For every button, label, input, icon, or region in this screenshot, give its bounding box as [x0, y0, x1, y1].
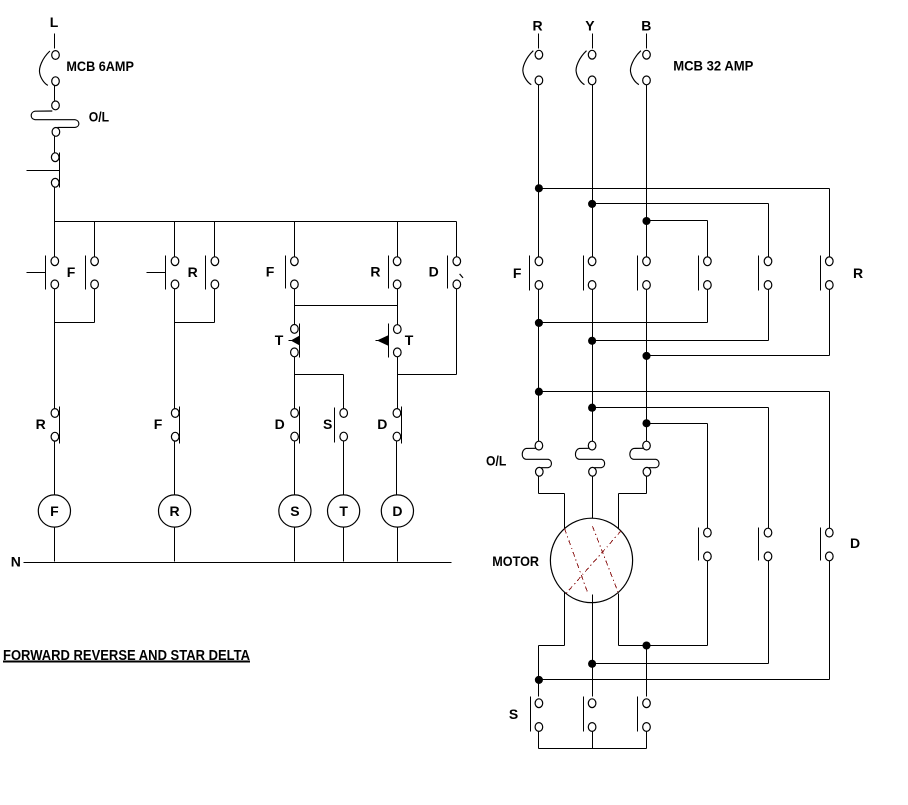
svg-text:T: T — [405, 332, 414, 348]
junction V2 / delta contact 2 link — [588, 660, 596, 668]
svg-text:L: L — [50, 14, 59, 30]
auxiliary contact F (NO) — [286, 256, 299, 289]
wire star contact 1 to star point — [538, 732, 540, 749]
wire down to contact 5 — [768, 204, 770, 258]
wire from O/L heater to O/L trip contact — [54, 137, 56, 153]
phase R wire contactor F to O/L — [538, 290, 540, 442]
neutral bus N — [24, 562, 452, 564]
wire bus to F pushbutton — [54, 222, 56, 258]
wire from F aux contact down — [294, 289, 296, 306]
wire O/L phase Y into motor terminal V — [592, 477, 594, 527]
svg-text:R: R — [188, 264, 198, 280]
wire bus to R pushbutton — [174, 222, 176, 258]
delta contactor D pole 1 — [699, 528, 712, 561]
star contactor S pole 2 — [584, 697, 596, 732]
phase B wire contactor F to O/L — [646, 290, 648, 442]
junction phase B / tap to contact 4 — [642, 217, 650, 225]
circuit breaker MCB 32 AMP pole 3 — [630, 50, 650, 85]
link wire U2 to delta contact 3 — [539, 679, 830, 681]
wire bus to R interlock contact — [397, 222, 399, 258]
star point bus — [539, 748, 647, 750]
reverse contactor R pole 3 — [821, 256, 834, 291]
wire into motor terminal U — [564, 494, 566, 529]
svg-text:R: R — [170, 503, 180, 519]
contactor coil R — [159, 495, 191, 527]
forward contactor F pole 1 — [530, 256, 543, 291]
cross link wire contact1-contact4 — [539, 322, 708, 324]
wire from timer T2 down — [397, 357, 399, 375]
interlock contact D (NC, right) — [393, 407, 401, 444]
svg-text:T: T — [275, 332, 284, 348]
jog wire to motor terminal U — [539, 493, 565, 495]
overload heater O/L phase B — [630, 441, 659, 476]
junction phase B / tap to delta contact 1 — [642, 419, 650, 427]
svg-text:D: D — [850, 535, 860, 551]
overload trip contact (NC) — [51, 153, 59, 188]
reverse contactor R pole 1 — [699, 256, 712, 291]
circuit breaker MCB 32 AMP pole 1 — [523, 50, 543, 85]
wire from coil F to neutral bus — [54, 528, 56, 562]
wire to D interlock contact (right) — [397, 375, 399, 409]
wire from F holding contact down — [94, 289, 96, 323]
holding contact R (NO aux) — [206, 256, 219, 290]
star contactor S pole 1 — [531, 697, 543, 732]
phase Y wire MCB to contactor F — [592, 85, 594, 258]
overload heater O/L phase R — [522, 441, 551, 476]
phase R wire MCB to contactor F — [538, 85, 540, 258]
wire bus to F holding contact — [94, 222, 96, 258]
pushbutton F (NO) — [46, 256, 59, 290]
actuator line of overload trip contact — [27, 170, 60, 172]
junction phase Y / cross link 2 — [588, 337, 596, 345]
jog wire to motor terminal W — [619, 493, 647, 495]
tap wire phase R to delta contact 3 — [539, 391, 830, 393]
wire contact 5 down to cross link 2 — [768, 290, 770, 341]
svg-text:O/L: O/L — [89, 109, 110, 125]
motor winding phase line V-X (red dash-dot) — [593, 526, 619, 593]
circuit breaker MCB 6AMP — [39, 51, 59, 86]
wire contact 6 down to cross link 3 — [829, 290, 831, 356]
delta contactor D pole 2 — [759, 528, 772, 561]
svg-text:R: R — [370, 264, 380, 280]
wire O/L phase B down — [646, 477, 648, 494]
svg-text:B: B — [641, 18, 651, 34]
svg-text:MOTOR: MOTOR — [492, 553, 539, 569]
interlock contact F (NC) — [171, 407, 179, 444]
wire from pushbutton R to F interlock contact — [174, 289, 176, 409]
auxiliary contact R (NO) — [389, 256, 401, 289]
wire down to star contact 3 — [646, 646, 648, 697]
wire from S contact to timer coil T — [343, 442, 345, 496]
wire down to delta contact 2 — [768, 408, 770, 529]
svg-text:R: R — [533, 18, 543, 34]
timer contact T2 (NC timed) — [376, 324, 402, 358]
control bus (top rail) — [55, 221, 457, 223]
contactor coil S — [279, 495, 311, 527]
wire from D interlock to coil S — [294, 442, 296, 496]
svg-text:R: R — [853, 265, 863, 281]
wire delta contact 2 down to V2 link — [768, 561, 770, 664]
wire down to contact 4 — [707, 221, 709, 258]
wire bus to D contact — [456, 222, 458, 258]
svg-text:S: S — [290, 503, 299, 519]
wire motor terminal U2 down — [564, 593, 566, 646]
wire O/L phase R down — [538, 477, 540, 494]
motor winding phase line W-Y (red dash-dot) — [566, 531, 621, 593]
jog wire U2 to phase R column — [539, 645, 565, 647]
title text FORWARD REVERSE AND STAR DELTA — [3, 648, 250, 664]
pushbutton R (NO) — [166, 256, 179, 290]
forward contactor F pole 2 — [584, 256, 596, 291]
wire to S contact — [343, 375, 345, 409]
wire contact 4 down to cross link 1 — [707, 290, 709, 323]
wire from R to MCB pole 1 — [538, 34, 540, 49]
svg-text:D: D — [392, 503, 402, 519]
overload heater O/L phase Y — [575, 441, 604, 476]
wire into motor terminal W — [618, 494, 620, 529]
wire from B to MCB pole 3 — [646, 34, 648, 49]
wire joining D aux branch to T2 output — [398, 374, 457, 376]
auxiliary contact D (NO, right) — [448, 256, 461, 289]
link wire V2 to delta contact 2 — [593, 663, 769, 665]
forward contactor F pole 3 — [638, 256, 651, 291]
svg-text:MCB 6AMP: MCB 6AMP — [66, 58, 133, 74]
junction phase B / cross link 3 — [642, 352, 650, 360]
wire from R aux contact to timer T2 — [397, 289, 399, 325]
wire from R interlock to coil F — [54, 442, 56, 496]
contactor coil D — [381, 495, 413, 527]
wire delta contact 3 down to U2 link — [829, 561, 831, 680]
wire joining F holding branch to main branch — [55, 322, 95, 324]
wire branching to S contact — [295, 374, 344, 376]
svg-text:D: D — [275, 416, 285, 432]
wire from F interlock to coil R — [174, 442, 176, 496]
svg-text:T: T — [339, 503, 348, 519]
junction phase Y / tap to contact 5 — [588, 200, 596, 208]
overload heater O/L — [31, 101, 79, 136]
motor winding phase line U-Z (red dash-dot) — [565, 529, 588, 594]
wire motor terminal W2 down — [618, 594, 620, 646]
reverse contactor R pole 2 — [759, 256, 772, 291]
wire from D aux contact down — [456, 289, 458, 375]
timer coil T — [328, 495, 360, 527]
wire from coil T to neutral bus — [343, 528, 345, 562]
junction phase R / tap to delta contact 3 — [535, 388, 543, 396]
wire star contact 3 to star point — [646, 732, 648, 749]
wire from trip contact to control bus — [54, 188, 56, 222]
link wire W2 to delta contact 1 — [619, 645, 708, 647]
svg-text:S: S — [323, 416, 332, 432]
delta contactor D pole 3 — [821, 528, 834, 561]
circuit breaker MCB 32 AMP pole 2 — [576, 50, 596, 85]
tap wire phase Y to delta contact 2 — [593, 407, 769, 409]
holding contact F (NO aux) — [86, 256, 99, 290]
contactor coil F — [38, 495, 70, 527]
motor M (3-phase) — [550, 518, 632, 602]
wire to D interlock contact (left) — [294, 375, 296, 409]
actuator line of pushbutton F — [27, 272, 46, 274]
junction phase R / cross link 1 — [535, 319, 543, 327]
junction phase R / tap to reverse contact — [535, 184, 543, 192]
junction U2 / delta contact 3 link — [535, 676, 543, 684]
wire joining R holding branch to main branch — [175, 322, 215, 324]
svg-text:F: F — [154, 416, 163, 432]
stray tick mark near D contact — [460, 274, 463, 278]
wire down to star contact 1 — [538, 646, 540, 697]
svg-text:F: F — [67, 264, 76, 280]
timer contact T1 (NC timed) — [289, 324, 300, 358]
interlock contact R (NC) — [51, 407, 59, 444]
svg-text:D: D — [429, 264, 439, 280]
wire from coil R to neutral bus — [174, 528, 176, 562]
wire bus to F interlock contact — [294, 222, 296, 258]
wire to timer contact T1 — [294, 306, 296, 325]
svg-text:Y: Y — [585, 18, 595, 34]
wire delta contact 1 down to W2 link — [707, 561, 709, 646]
interlock contact D (NC, left) — [291, 407, 300, 444]
wire star contact 2 to star point — [592, 732, 594, 749]
svg-text:D: D — [377, 416, 387, 432]
junction phase Y / tap to delta contact 2 — [588, 404, 596, 412]
cross link wire contact2-contact5 — [593, 340, 769, 342]
actuator line of pushbutton R — [147, 272, 166, 274]
wire linking F and R auxiliary branches — [295, 305, 398, 307]
tap wire phase R to contact 6 — [539, 188, 830, 190]
wire from coil S to neutral bus — [294, 528, 296, 562]
wire down to contact 6 (R) — [829, 189, 831, 258]
wire from MCB to O/L heater — [54, 86, 56, 101]
wire from timer T1 down — [294, 357, 296, 375]
wire motor terminal V2 down to star contact 2 — [592, 595, 594, 697]
wire from L to MCB 6AMP — [54, 34, 56, 49]
svg-text:S: S — [509, 706, 518, 722]
wire from coil D to neutral bus — [397, 528, 399, 562]
wire bus to R holding contact — [214, 222, 216, 258]
wire down to delta contact 1 — [707, 424, 709, 529]
svg-text:R: R — [36, 416, 46, 432]
svg-text:F: F — [266, 264, 275, 280]
svg-text:N: N — [11, 554, 21, 570]
wire from Y to MCB pole 2 — [592, 34, 594, 49]
wire from R holding contact down — [214, 289, 216, 323]
junction W2 link / star contact 3 — [642, 641, 650, 649]
tap wire phase Y to contact 5 — [593, 203, 769, 205]
star contactor S pole 3 — [638, 697, 651, 732]
wire from D interlock to coil D — [396, 442, 398, 496]
phase B wire MCB to contactor F — [646, 85, 648, 258]
wire down to delta contact 3 — [829, 392, 831, 529]
tap wire phase B to delta contact 1 — [647, 423, 708, 425]
svg-text:F: F — [50, 503, 59, 519]
tap wire phase B to contact 4 — [647, 220, 708, 222]
phase Y wire contactor F to O/L — [592, 290, 594, 442]
svg-text:F: F — [513, 265, 522, 281]
cross link wire contact3-contact6 — [647, 355, 830, 357]
svg-text:MCB 32 AMP: MCB 32 AMP — [673, 58, 753, 74]
auxiliary contact S (NO) — [335, 408, 348, 443]
wire from pushbutton F to R interlock contact — [54, 289, 56, 409]
svg-text:O/L: O/L — [486, 453, 507, 469]
